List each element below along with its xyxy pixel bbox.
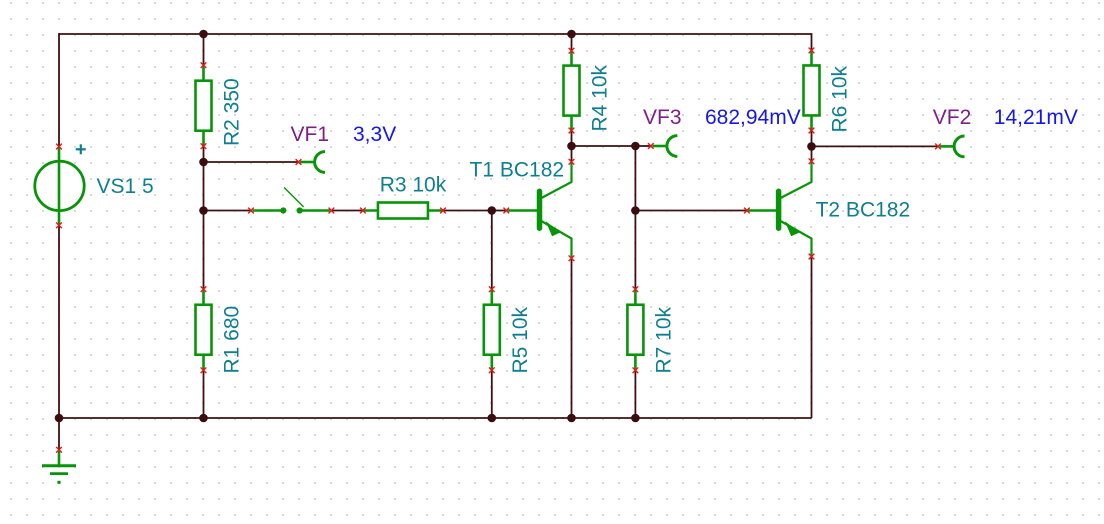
transistor T1 (NPN BC182) <box>508 162 572 258</box>
wire: R6 bottom to node G <box>811 131 813 147</box>
svg-text:R1 680: R1 680 <box>221 306 244 374</box>
wire: R1 to bottom rail <box>203 370 205 418</box>
node: bottom rail / ground <box>55 414 64 423</box>
wire: node E to VF3 <box>635 145 650 147</box>
pin R4 bottom <box>569 128 575 134</box>
svg-text:VF3: VF3 <box>643 106 682 129</box>
node: top rail / R4 <box>567 30 576 39</box>
resistor R5 <box>484 289 500 370</box>
wire: R4 bottom to node D <box>571 131 573 147</box>
svg-text:R7 10k: R7 10k <box>652 306 675 373</box>
node E (VF3) <box>631 142 640 151</box>
pin T2 base <box>744 208 750 214</box>
wire: node G to VF2 <box>812 145 939 147</box>
wire: node B to switch <box>204 210 252 212</box>
voltage source VS1 <box>35 148 84 225</box>
wire: node F to T2 base <box>635 210 747 212</box>
svg-text:VF1: VF1 <box>291 123 330 146</box>
pin R2 top <box>201 62 207 68</box>
svg-text:682,94mV: 682,94mV <box>705 106 801 129</box>
pin ground <box>56 447 62 453</box>
svg-text:R2 350: R2 350 <box>221 78 244 146</box>
node: bottom rail / T1 emitter <box>567 414 576 423</box>
pin R3 right <box>440 208 446 214</box>
node A (R2 bottom / VF1) <box>199 158 208 167</box>
node: bottom rail / R5 <box>488 414 497 423</box>
voltage probe VF1 <box>300 152 325 173</box>
pin switch right <box>329 208 335 214</box>
wire: R2 top lead-in <box>203 34 205 65</box>
pin R4 top <box>569 48 575 54</box>
wire: ground stub <box>58 418 60 450</box>
svg-text:R3 10k: R3 10k <box>380 173 447 196</box>
pin T1 emitter <box>569 255 575 261</box>
pin R5 top <box>489 286 495 292</box>
node F (T2 base / R7) <box>631 206 640 215</box>
node: bottom rail / R1 <box>199 414 208 423</box>
resistor R3 <box>363 203 443 219</box>
pin VS1 - (bottom) <box>56 222 62 228</box>
pin R2 bottom <box>201 143 207 149</box>
wire: T1 emitter to bottom rail <box>571 258 573 418</box>
pin R7 bottom <box>633 367 639 373</box>
wire: left rail lower (VS1 to bottom rail) <box>58 225 60 418</box>
pin T1 base <box>503 208 509 214</box>
pin VS1 + (top) <box>56 144 62 150</box>
voltage probe VF3 <box>652 136 677 157</box>
pin R1 bottom <box>201 367 207 373</box>
pin R1 top <box>201 286 207 292</box>
wire: node D to node E <box>572 145 636 147</box>
wire: top rail <box>59 33 812 35</box>
svg-text:3,3V: 3,3V <box>353 123 396 146</box>
wire: R2 bottom to node A <box>203 146 205 162</box>
wire: node C to R5 <box>491 211 493 290</box>
node G (R6 / T2 collector / VF2) <box>807 142 816 151</box>
pin VF3 <box>648 143 654 149</box>
wire: R3 to node C <box>443 210 492 212</box>
wire: R7 to bottom rail <box>634 370 636 418</box>
resistor R4 <box>564 51 580 131</box>
pin VF1 <box>296 159 302 165</box>
wire: left rail upper (to VS1) <box>58 33 60 146</box>
wire: node G to T2 collector <box>811 146 813 161</box>
VS1 plus polarity mark <box>76 144 86 154</box>
resistor R1 <box>196 289 212 370</box>
wire: T2 emitter to bottom rail <box>811 257 813 419</box>
svg-text:R4 10k: R4 10k <box>589 64 612 131</box>
wire: node A to VF1 <box>204 161 299 163</box>
pin R5 bottom <box>489 367 495 373</box>
wire: bottom rail <box>59 417 812 419</box>
svg-text:VF2: VF2 <box>933 106 972 129</box>
node D (R4 / T1 collector) <box>567 142 576 151</box>
resistor R7 <box>627 289 643 370</box>
svg-text:T2 BC182: T2 BC182 <box>816 198 911 221</box>
ground <box>42 451 76 484</box>
pin R6 top <box>809 48 815 54</box>
wire: node D to T1 collector <box>571 146 573 162</box>
svg-text:VS1 5: VS1 5 <box>97 175 154 198</box>
pin T2 emitter <box>809 254 815 260</box>
pin R3 left <box>360 208 366 214</box>
node: bottom rail / R7 <box>631 414 640 423</box>
svg-text:T1 BC182: T1 BC182 <box>470 159 565 182</box>
resistor R2 <box>196 65 212 146</box>
svg-text:R5 10k: R5 10k <box>509 306 532 373</box>
wire: node F to R7 <box>634 211 636 290</box>
node C (R3 / T1 base / R5) <box>488 206 497 215</box>
wire: node B to R1 <box>203 211 205 290</box>
pin VF2 <box>935 144 941 150</box>
pin R6 bottom <box>809 128 815 134</box>
wire: R5 to bottom rail <box>491 370 493 418</box>
wire: switch to R3 <box>331 210 363 212</box>
wire: node C to T1 base <box>492 210 507 212</box>
resistor R6 <box>804 50 820 130</box>
node B (switch / R1) <box>199 206 208 215</box>
switch (open) <box>253 187 331 213</box>
svg-text:R6 10k: R6 10k <box>828 65 851 132</box>
wire: node E to node F <box>634 146 636 211</box>
pin T1 collector <box>569 159 575 165</box>
wire: R4 top lead-in <box>571 34 573 51</box>
wire: node A to node B <box>203 162 205 211</box>
transistor T2 (NPN BC182) <box>747 162 812 258</box>
wire: right rail (top to R6) <box>811 33 813 50</box>
pin T2 collector <box>809 158 815 164</box>
svg-text:14,21mV: 14,21mV <box>994 106 1078 129</box>
pin switch left <box>248 208 254 214</box>
node: top rail / R2 <box>199 30 208 39</box>
pin R7 top <box>633 286 639 292</box>
voltage probe VF2 <box>940 136 965 157</box>
